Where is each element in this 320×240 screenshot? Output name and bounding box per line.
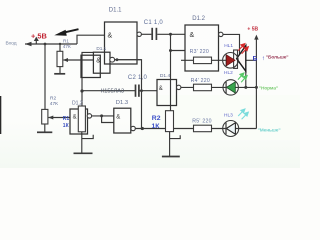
svg-text:1К: 1К [152, 123, 161, 130]
svg-text:"Больше": "Больше" [266, 55, 289, 61]
svg-text:+ 5В: + 5В [247, 27, 258, 33]
svg-text:47К: 47К [63, 44, 71, 49]
svg-text:"Норма": "Норма" [259, 85, 278, 91]
svg-text:&: & [190, 32, 195, 39]
svg-text:D1.2: D1.2 [72, 100, 83, 106]
svg-text:1К: 1К [63, 123, 70, 129]
svg-text:C2 1,0: C2 1,0 [128, 75, 148, 81]
svg-text:R2: R2 [50, 95, 56, 101]
svg-text:D1.1: D1.1 [109, 8, 122, 14]
svg-text:&: & [96, 57, 101, 64]
svg-text:R3' 220: R3' 220 [190, 49, 209, 55]
svg-text:R1: R1 [63, 39, 69, 44]
svg-text:↑: ↑ [262, 56, 265, 62]
svg-text:&: & [73, 114, 77, 120]
svg-text:R4' 220: R4' 220 [191, 78, 210, 84]
svg-text:D1.1: D1.1 [96, 46, 106, 51]
svg-text:HL2: HL2 [224, 70, 233, 76]
svg-text:C1 1,0: C1 1,0 [144, 20, 164, 26]
svg-text:R5' 220: R5' 220 [192, 118, 211, 124]
svg-text:+ 5В: + 5В [31, 31, 47, 40]
svg-text:&: & [116, 114, 120, 120]
svg-text:К155ЛА3: К155ЛА3 [101, 88, 124, 94]
svg-text:HL3: HL3 [224, 112, 233, 118]
svg-text:R1: R1 [63, 116, 70, 122]
svg-text:D1.3: D1.3 [116, 100, 128, 106]
svg-text:47К: 47К [50, 101, 58, 107]
svg-text:&: & [108, 32, 113, 39]
svg-text:&: & [159, 86, 163, 92]
svg-text:HL1: HL1 [224, 43, 233, 49]
svg-text:Б: Б [253, 56, 258, 63]
svg-text:R2: R2 [152, 115, 161, 122]
svg-text:Вход: Вход [6, 41, 17, 47]
svg-text:D1.2: D1.2 [192, 16, 205, 22]
svg-text:"Меньше": "Меньше" [258, 128, 281, 134]
svg-text:D1.4: D1.4 [160, 73, 171, 79]
